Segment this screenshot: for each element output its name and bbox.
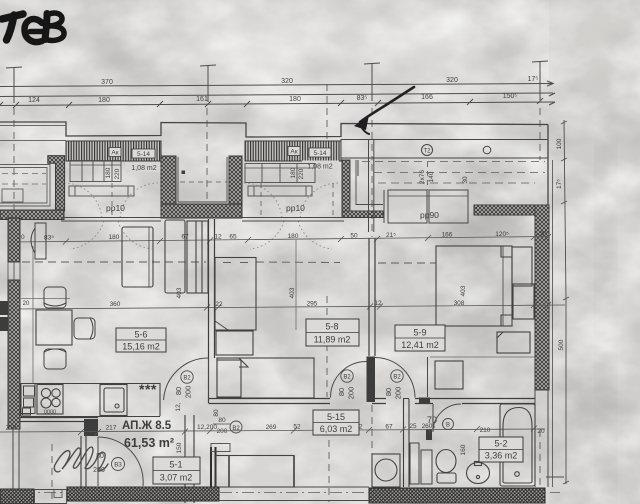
bathtub [500,404,535,486]
door stub dark [367,357,376,403]
handwritten TEB [2,13,64,42]
armchair left [31,223,46,259]
top wall room 5-9 crosshatch [474,205,548,215]
court1 radiator [69,186,134,196]
svg-text:20: 20 [537,428,545,435]
balcony parapet hatched strip 2 [245,141,341,161]
wall 5-6/5-8 [209,219,215,403]
axis T-mark 2 [200,65,216,102]
sink [100,385,127,416]
bottom threshold lines middle [34,487,369,504]
left balcony wall bottom (crosshatch) [0,210,64,220]
svg-text:5-9: 5-9 [413,328,426,338]
kitchen bottom wall [20,418,98,422]
arrowheads right end [547,81,555,105]
hall 5-1 right wall [185,415,194,503]
svg-text:50: 50 [350,233,358,240]
svg-text:17⁵: 17⁵ [556,179,563,189]
right margin vertical dim upper [561,120,567,300]
chair bottom [44,349,66,369]
right wall outer face line [552,160,554,487]
court2 radiator [248,186,312,196]
left neighbour balcony lining [0,165,50,207]
room top wall lines under courts [61,218,344,222]
svg-text:22: 22 [215,301,223,308]
right margin vertical dim lower [563,297,569,484]
svg-text:pp90: pp90 [420,210,439,220]
label 5-1 [153,457,200,484]
left wall crosshatch lower [8,280,20,429]
svg-text:80: 80 [218,417,226,424]
svg-text:80: 80 [213,409,220,417]
svg-text:360: 360 [110,301,121,308]
dim line row 2 [0,93,553,97]
cabinet [497,332,530,353]
shaft right wall (crosshatch) [229,156,242,218]
svg-text:5-8: 5-8 [325,322,338,332]
left wall window [8,262,20,280]
svg-text:12,: 12, [175,402,182,411]
svg-text:3,36 m2: 3,36 m2 [485,451,518,461]
svg-text:269: 269 [266,424,277,431]
svg-text:Т2: Т2 [423,149,431,155]
door 5-6 leaf and arc [164,358,209,400]
svg-text:В2: В2 [343,375,351,381]
svg-text:20: 20 [23,301,30,307]
svg-text:В2: В2 [183,376,191,382]
label 5-2 [479,437,523,462]
dim labels y307 [110,300,465,308]
svg-text:180: 180 [290,167,297,178]
svg-text:ВЗ: ВЗ [114,463,122,469]
svg-text:6,03 m2: 6,03 m2 [320,424,353,434]
corridor top wall [209,399,536,404]
left wall base below [13,429,19,489]
terrace corner wall vertical (crosshatch) [342,160,350,217]
bed 5-9 [436,246,512,326]
room 5-9 floor line [430,356,535,358]
washing machine [372,454,400,487]
svg-text:150: 150 [176,442,183,453]
corridor wall dark piece [419,398,430,405]
pp90 windows [384,190,468,223]
left wall crosshatch upper [8,218,20,262]
chair top [44,287,66,308]
rotated 2x76 140 [419,170,469,184]
rotated dims 180/220 court1 [105,167,121,179]
bottom wall strip right [369,488,545,503]
door 5-1 leaf and arc [98,437,143,486]
dim line row 1 [0,84,553,87]
label box 5-14 strip1 [132,149,155,158]
svg-text:258: 258 [6,425,17,432]
svg-text:200: 200 [217,428,228,435]
door 5-9 leaf and arc [375,357,428,398]
wall 5-8/5-9 [369,238,375,356]
left balcony dashes [2,174,46,184]
ticks on dim line 3 [0,98,543,108]
svg-text:217: 217 [106,425,117,432]
label 1,08 m2 court1 [126,162,163,172]
shaft bottom wall (crosshatch) [161,204,242,218]
door 5-1/corridor B2 stacked dims [213,417,231,435]
svg-text:12: 12 [214,234,222,241]
kitchen counter [21,384,160,417]
corridor bottom line [216,455,294,457]
svg-text:1,08 m2: 1,08 m2 [131,165,156,172]
label box Ak strip2 [288,147,300,156]
closet [216,331,253,355]
svg-text:80: 80 [337,388,346,396]
svg-text:11,89 m2: 11,89 m2 [314,335,351,345]
terrace dashed lines [362,162,545,191]
svg-text:210: 210 [480,427,491,434]
svg-text:1,08 m2: 1,08 m2 [307,164,332,171]
sofa [122,227,153,287]
radiator marks left edge [0,301,8,315]
terrace inner wall verticals [369,140,374,232]
svg-text:100: 100 [556,138,563,149]
svg-text:65: 65 [229,234,237,241]
bottom wall strip left [67,487,219,501]
court1 door swing dotted [64,183,158,249]
bathroom door jamb post [426,429,432,440]
terrace corner lining [350,160,383,211]
bathroom left wall [404,399,410,487]
svg-text:320: 320 [281,78,293,85]
svg-text:Ак: Ак [111,150,118,157]
dim line row 3 [0,102,555,106]
hall 5-1 left wall [81,436,86,487]
stove [37,385,63,415]
court2 door jamb dashes [261,183,333,218]
svg-text:61,53 m²: 61,53 m² [124,436,174,450]
svg-text:2x76: 2x76 [419,170,426,184]
svg-text:5-14: 5-14 [313,150,326,157]
outline right edge [547,125,549,206]
svg-text:5-2: 5-2 [494,439,507,449]
svg-text:403: 403 [460,285,467,296]
rotated dims misc [176,409,467,455]
svg-text:200: 200 [347,387,356,400]
svg-text:25: 25 [85,425,93,432]
bed 5-8 [217,358,314,398]
svg-text:120⁵: 120⁵ [495,231,509,238]
B2 circle door 5-6 [181,371,193,383]
door 5-8 leaf and arc [331,362,367,398]
nightstand 1 [512,247,532,286]
svg-text:3,07 m2: 3,07 m2 [160,473,193,483]
svg-text:0000: 0000 [44,410,56,416]
centerline dash-dot bottom [0,492,560,494]
svg-text:30: 30 [462,176,469,184]
dim line y307 [11,302,565,312]
svg-text:180: 180 [105,167,112,178]
svg-text:320: 320 [446,77,458,84]
label box 5-14 strip2 [309,148,331,157]
dining table [36,310,72,345]
svg-text:403: 403 [289,287,296,298]
shaft court marks [180,171,227,183]
svg-text:166: 166 [442,232,453,239]
svg-text:pp10: pp10 [106,203,125,213]
right wall lines below hatch [535,390,548,487]
svg-text:200: 200 [394,387,403,400]
B2 circle door 5-9 [391,370,403,382]
rotated dims 180/220 court2 [290,167,305,179]
svg-text:5-15: 5-15 [327,412,345,422]
svg-text:150⁵: 150⁵ [503,93,518,100]
dresser [435,361,463,389]
axis T-mark 3 [364,63,380,101]
corridor shelf [211,444,230,452]
chair right [74,318,95,339]
svg-text:***: *** [139,381,157,397]
circle mark [483,146,491,154]
svg-text:161: 161 [196,96,208,103]
svg-text:12,41 m2: 12,41 m2 [401,340,439,350]
bath cabinet [410,443,432,484]
B3 circle door 5-1 [112,458,125,471]
svg-text:17⁵: 17⁵ [528,76,539,83]
svg-text:5-6: 5-6 [134,330,147,340]
balcony rail left [0,126,66,141]
svg-text:500: 500 [558,339,565,350]
B2 circle door 5-8 [341,370,353,382]
dim line y240 [11,234,551,245]
washbasin [467,462,490,484]
svg-text:80: 80 [384,388,393,396]
right exterior wall crosshatch [535,205,549,390]
svg-text:295: 295 [307,301,318,308]
court1 window band [70,161,121,182]
svg-text:Ак: Ак [290,149,297,156]
svg-text:В: В [446,423,450,429]
svg-text:12,200: 12,200 [197,424,217,431]
axis T-mark 4 [532,61,548,100]
dashed centerline y262 [22,262,436,263]
svg-text:5-1: 5-1 [169,460,182,470]
dim labels y240 [17,231,547,242]
corridor cabinet [216,456,294,488]
court2 door swing dotted [244,183,338,249]
court1 centerline [111,183,113,218]
svg-text:В2: В2 [393,375,401,381]
svg-text:370: 370 [101,79,113,86]
label 5-6 [116,328,166,352]
label 5-9 [395,325,445,351]
bathroom door arc [433,404,461,432]
shaft inner lining [178,157,227,202]
kitchen cabinet left [21,384,35,416]
dim labels row 1 [101,76,538,86]
corridor left wall posts [211,447,216,500]
marker arrow [354,87,414,134]
svg-text:5-14: 5-14 [137,151,150,158]
wall post dark [84,419,98,436]
svg-text:260: 260 [422,423,433,430]
svg-text:166: 166 [421,94,433,101]
svg-text:21⁵: 21⁵ [386,232,396,239]
court1 left wall (crosshatch) [48,156,65,211]
grid dashed verticals [14,84,540,502]
T2 circle [422,145,433,156]
svg-text:15,16 m2: 15,16 m2 [122,342,160,352]
svg-text:200: 200 [184,386,193,399]
bottom left corner block [0,489,34,504]
svg-text:180: 180 [98,97,110,104]
label 5-15 [313,410,359,435]
dim labels row 2 [28,93,517,104]
svg-text:180: 180 [288,233,299,240]
shaft left wall (crosshatch) [161,156,176,218]
svg-text:52: 52 [293,424,301,431]
interior face line [32,246,34,383]
svg-text:180: 180 [109,234,120,241]
desk [215,258,256,331]
court2 window band [245,164,315,183]
svg-text:pp10: pp10 [286,203,305,213]
svg-text:140: 140 [428,171,435,182]
outline top [0,122,548,137]
nightstand 2 [513,284,534,319]
svg-text:АП.Ж 8.5: АП.Ж 8.5 [122,420,172,432]
level mark bottom right [546,476,564,478]
svg-text:220: 220 [298,168,305,179]
svg-text:220: 220 [114,168,121,179]
svg-text:25: 25 [409,423,417,430]
balcony parapet hatched strip 1 [66,141,161,161]
label 5-8 [306,319,359,346]
bench edge line [21,298,70,300]
toilet [436,450,456,484]
svg-text:180: 180 [289,96,301,103]
left balcony box [2,189,23,202]
handwritten scribble [54,447,108,472]
svg-text:160: 160 [460,444,467,455]
wardrobe [165,220,208,293]
thin line x296 [295,240,297,330]
terrace corner wall horizontal (crosshatch) [342,211,383,218]
svg-text:80: 80 [174,387,183,395]
label box Ak strip1 [109,148,121,157]
rotated 403 labels [176,285,467,298]
svg-text:67: 67 [385,424,393,431]
svg-text:30: 30 [539,231,547,238]
label 1,08 m2 court2 [302,161,339,171]
svg-text:83⁵: 83⁵ [357,95,368,102]
svg-text:308: 308 [454,300,465,307]
svg-text:124: 124 [28,97,40,104]
axis T-mark 1 [6,67,22,103]
